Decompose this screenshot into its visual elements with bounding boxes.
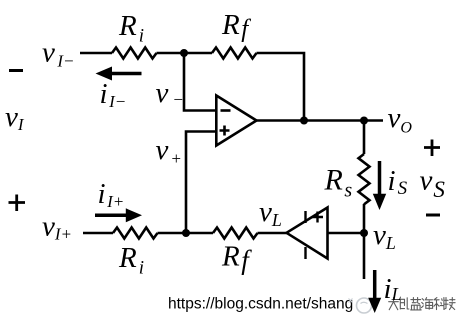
svg-text:Rs: Rs [324, 164, 353, 202]
node junction dot top rail [180, 49, 188, 57]
current arrow i_S (pointing down) [373, 161, 386, 210]
wire vO node down to Rs [363, 121, 366, 155]
svg-text:Ri: Ri [118, 10, 144, 47]
wire vL node down (load lead) [363, 233, 366, 279]
resistor Rs (vertical) [359, 154, 370, 204]
svg-text:vI−: vI− [42, 37, 75, 71]
svg-text:Rf: Rf [221, 9, 251, 42]
wire inverting input from top junction [184, 53, 217, 111]
watermark brand text: 大 [389, 298, 399, 310]
wire buffer input to vL node [328, 232, 365, 235]
op-amp U1 [216, 96, 256, 146]
wire top rail left segment [80, 52, 112, 55]
watermark logo circle [349, 298, 372, 313]
wire between Ri and Rf [157, 52, 213, 55]
wire non-inverting input from bottom junction [186, 132, 217, 234]
svg-text:vL: vL [259, 196, 282, 230]
current arrow i_I- (pointing left) [96, 67, 142, 81]
watermark brand text: 蓝 [411, 298, 422, 310]
node junction vL [360, 229, 368, 237]
label plus (left source terminal) [9, 195, 26, 212]
node junction bottom rail [182, 229, 190, 237]
wire Rf to buffer output [258, 232, 289, 235]
label plus (right vS) [424, 140, 440, 157]
resistor Rf (bottom) [213, 228, 258, 239]
wire bottom rail left segment [83, 232, 113, 235]
svg-text:iL: iL [384, 273, 402, 305]
svg-text:vO: vO [388, 102, 413, 137]
watermark brand text: 印 [400, 298, 409, 309]
node junction feedback/output [300, 117, 308, 125]
watermark brand text: 海 [422, 298, 433, 310]
svg-text:vI: vI [5, 101, 25, 134]
resistor Ri (bottom) [113, 228, 158, 239]
resistor Rf (top) [212, 48, 257, 59]
svg-text:iS: iS [388, 165, 408, 199]
svg-text:v−: v− [156, 77, 184, 109]
current arrow i_L (pointing down) [368, 270, 381, 313]
wire between bottom Ri and Rf [158, 232, 214, 235]
wire op-amp output [257, 119, 384, 122]
watermark brand text: 科 [434, 298, 444, 310]
svg-text:vS: vS [420, 165, 446, 203]
svg-text:https://blog.csdn.net/shang: https://blog.csdn.net/shang [168, 296, 353, 313]
svg-text:vL: vL [373, 219, 396, 253]
current arrow i_I+ (pointing right) [95, 208, 142, 222]
buffer amplifier U2 (unity gain, pointing left) [287, 208, 328, 260]
watermark brand text: 技 [444, 298, 455, 310]
svg-text:Ri: Ri [118, 242, 144, 279]
svg-text:vI+: vI+ [42, 211, 72, 244]
svg-text:iI+: iI+ [98, 178, 125, 211]
label minus (left source terminal) [9, 69, 23, 72]
label minus (right vS) [426, 214, 440, 217]
wire Rs to vL node [363, 204, 366, 233]
resistor Ri (top) [112, 48, 157, 59]
wire Rf to corner and down to output [257, 53, 305, 121]
svg-text:v+: v+ [156, 134, 182, 168]
svg-text:iI−: iI− [100, 78, 127, 111]
node junction output to Rs [360, 117, 368, 125]
svg-text:Rf: Rf [221, 241, 252, 276]
